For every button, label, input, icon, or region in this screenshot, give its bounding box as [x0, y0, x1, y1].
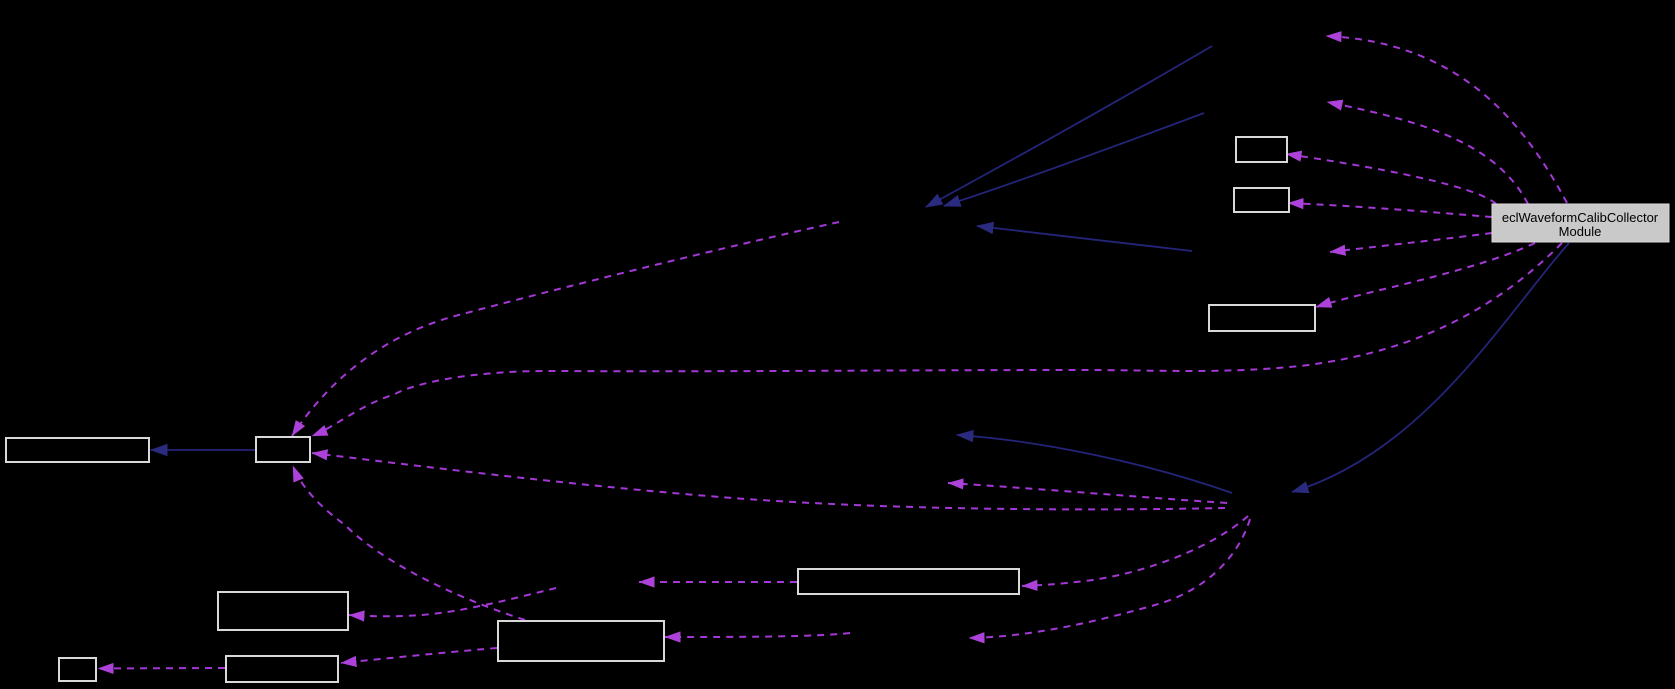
- wire: purple dashed edge P5 (main -> invisible node F): [1330, 233, 1492, 252]
- box B8: [1236, 137, 1287, 162]
- wire: purple dashed edge P8 (invisible node A -> box B2 top): [292, 222, 839, 436]
- box B4: [218, 592, 348, 630]
- wire: purple dashed edge P15 (box B3 -> invisible node I): [639, 581, 797, 583]
- wire: purple dashed edge P3 (main -> box B8): [1286, 154, 1496, 204]
- wire: purple dashed edge P11 (invisible node D -> box B3 right): [1022, 516, 1248, 586]
- svg-text:Module: Module: [1559, 224, 1602, 239]
- wire: purple dashed edge P1 (main -> invisible node B): [1326, 36, 1567, 203]
- box B5: [59, 658, 96, 681]
- wire: purple dashed edge P18 (box B6 -> box B5): [98, 667, 225, 670]
- box B6: [226, 656, 338, 682]
- box B2: [256, 437, 310, 462]
- wire: purple dashed edge P17 (box B7 -> box B6): [341, 648, 497, 663]
- wire: blue inheritance edge E1 (invisible node B -> invisible node A): [926, 46, 1212, 207]
- wire: purple dashed edge P4 (main -> box B9): [1288, 203, 1492, 217]
- box B7: [498, 621, 664, 661]
- wire: purple dashed edge P2 (main -> invisible node C): [1327, 102, 1528, 204]
- box B10: [1209, 305, 1315, 331]
- wire: blue inheritance edge E4 (main node -> invisible node D): [1292, 243, 1569, 492]
- wire: blue inheritance edge E5 (invisible node D -> invisible node G): [957, 435, 1232, 493]
- wire: purple dashed edge P13 (invisible node D -> invisible node J): [969, 519, 1250, 638]
- box B9: [1234, 188, 1289, 212]
- wire: purple dashed edge P9 (invisible node D -> invisible node H): [948, 483, 1227, 503]
- wire: blue inheritance edge E3 (invisible node F -> invisible node A): [977, 226, 1192, 251]
- box B3: [798, 569, 1019, 594]
- wire: purple dashed edge P12 (box B7 -> box B2 bottom): [293, 466, 525, 620]
- wire: blue inheritance edge E6 (box B2 -> box B1): [151, 449, 255, 451]
- wire: purple dashed edge P6 (main -> box B10): [1316, 243, 1535, 307]
- wire: purple dashed edge P16 (invisible node I -> box B4): [349, 588, 556, 616]
- wire: purple dashed edge P10 (invisible node D -> box B2 right): [312, 453, 1225, 509]
- main node eclWaveformCalibCollectorModule: [1492, 204, 1669, 242]
- wire: purple dashed edge P7 (main -> box B2 top right corner): [312, 243, 1562, 436]
- wire: blue inheritance edge E2 (invisible node C -> invisible node A): [944, 113, 1204, 206]
- wire: purple dashed edge P14 (invisible node J -> box B7 right): [665, 633, 850, 637]
- box B1: [6, 438, 149, 462]
- svg-text:eclWaveformCalibCollector: eclWaveformCalibCollector: [1502, 210, 1659, 225]
